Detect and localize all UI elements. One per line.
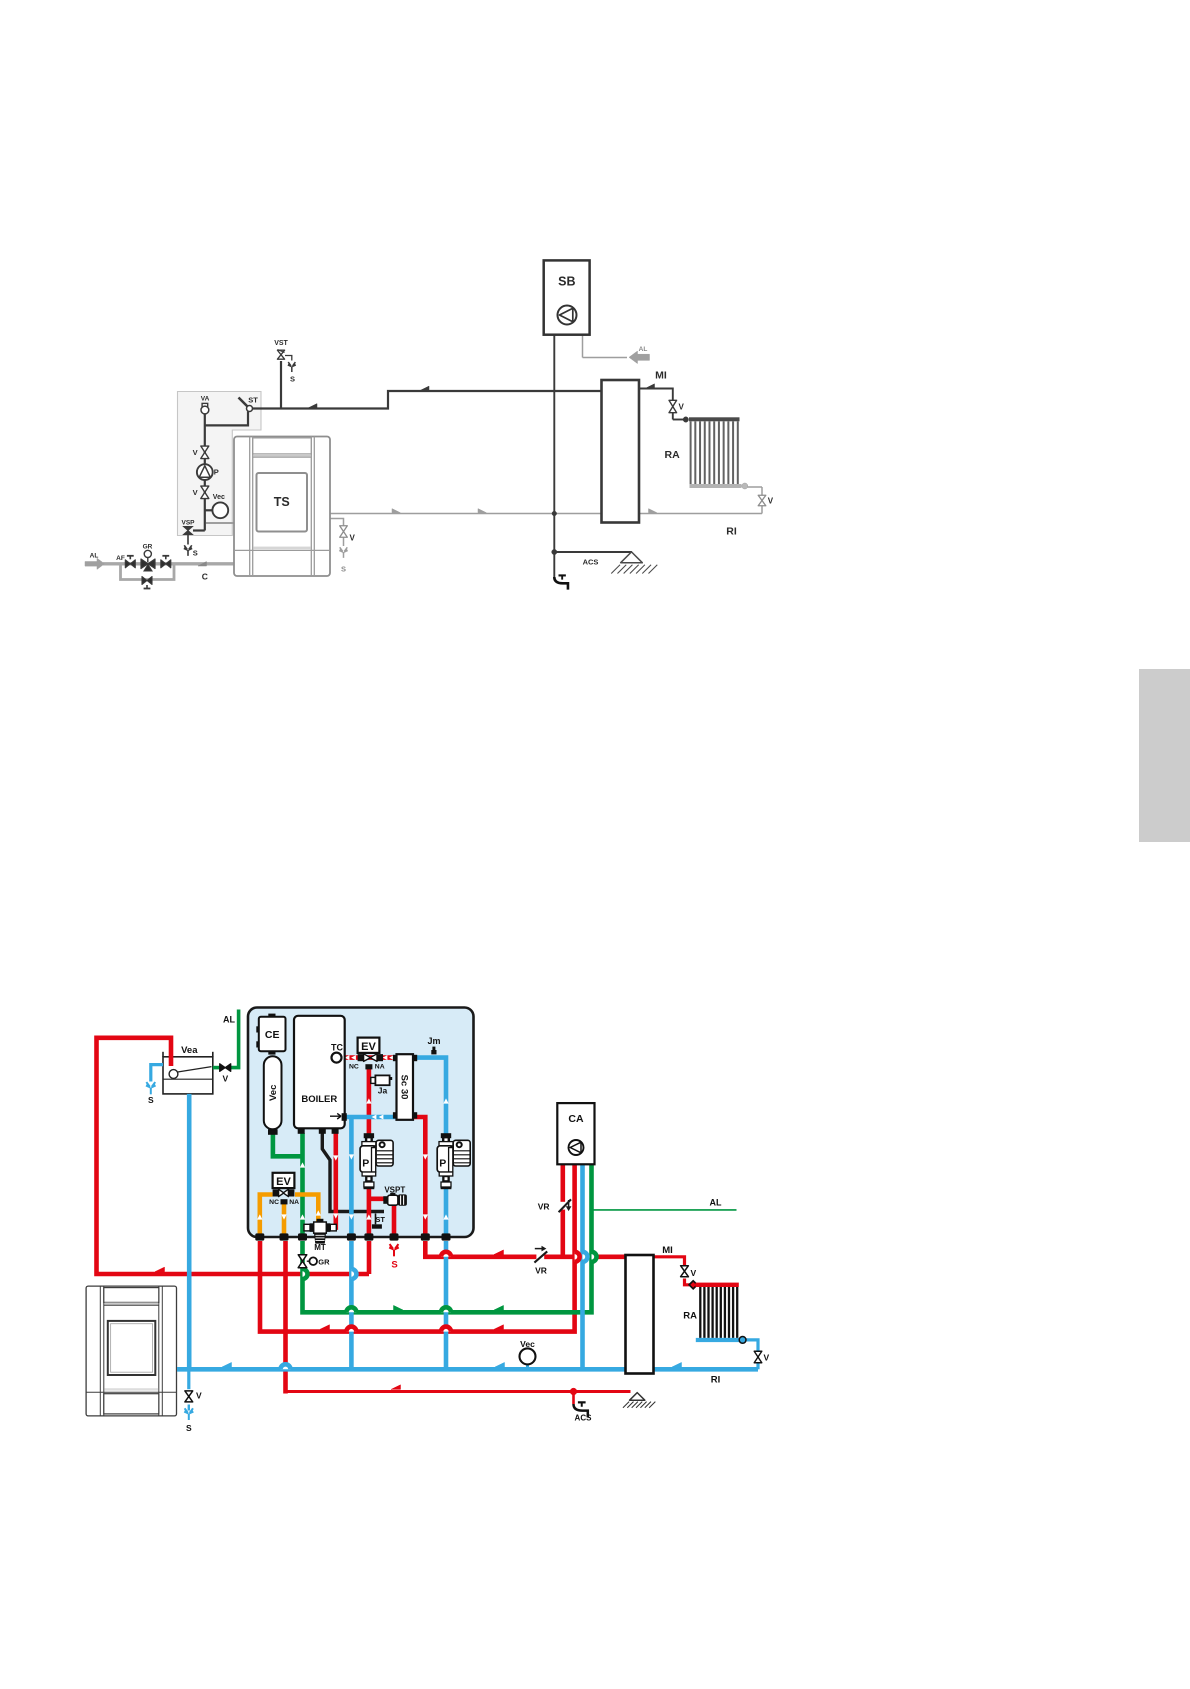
- svg-text:MI: MI: [655, 370, 667, 382]
- svg-text:VR: VR: [538, 1202, 550, 1212]
- svg-text:NC: NC: [269, 1199, 279, 1206]
- svg-text:VA: VA: [201, 396, 210, 403]
- svg-text:ACS: ACS: [583, 558, 599, 567]
- svg-text:S: S: [290, 375, 295, 384]
- svg-text:S: S: [341, 565, 346, 574]
- svg-text:TS: TS: [274, 495, 290, 509]
- svg-text:AL: AL: [710, 1198, 722, 1208]
- svg-text:ACS: ACS: [575, 1414, 593, 1423]
- svg-text:GR: GR: [318, 1258, 330, 1267]
- svg-text:MT: MT: [314, 1243, 326, 1252]
- svg-text:VR: VR: [535, 1266, 547, 1276]
- svg-text:S: S: [186, 1423, 192, 1433]
- svg-text:V: V: [679, 403, 685, 412]
- svg-text:VSP: VSP: [181, 520, 195, 527]
- svg-text:V: V: [193, 488, 198, 497]
- svg-text:ST: ST: [375, 1215, 385, 1224]
- svg-text:S: S: [148, 1095, 154, 1105]
- svg-text:BOILER: BOILER: [301, 1094, 337, 1105]
- svg-text:Vec: Vec: [520, 1339, 535, 1349]
- svg-text:RA: RA: [665, 449, 681, 461]
- svg-text:S: S: [193, 549, 198, 558]
- svg-text:RI: RI: [711, 1375, 721, 1386]
- svg-text:V: V: [691, 1268, 697, 1278]
- svg-text:V: V: [196, 1391, 202, 1401]
- svg-text:ST: ST: [248, 396, 258, 405]
- svg-text:Vec: Vec: [213, 494, 225, 501]
- svg-text:SB: SB: [558, 275, 575, 289]
- svg-text:EV: EV: [276, 1176, 291, 1188]
- svg-text:P: P: [214, 468, 219, 477]
- svg-text:CA: CA: [568, 1113, 584, 1125]
- svg-text:MI: MI: [662, 1245, 673, 1256]
- svg-text:Vea: Vea: [181, 1045, 198, 1056]
- svg-text:C: C: [202, 572, 208, 582]
- svg-text:Sc 30: Sc 30: [399, 1075, 410, 1100]
- svg-text:AL: AL: [223, 1015, 235, 1025]
- svg-text:AL: AL: [639, 346, 648, 353]
- svg-text:V: V: [222, 1073, 228, 1083]
- svg-text:P: P: [362, 1158, 369, 1170]
- svg-text:VST: VST: [274, 340, 288, 347]
- svg-text:S: S: [391, 1260, 397, 1271]
- svg-text:NA: NA: [375, 1063, 385, 1070]
- svg-text:Jm: Jm: [427, 1036, 440, 1046]
- svg-text:V: V: [193, 448, 198, 457]
- svg-text:TC: TC: [331, 1043, 343, 1053]
- svg-text:RI: RI: [726, 526, 737, 538]
- svg-text:EV: EV: [361, 1041, 376, 1053]
- svg-text:NC: NC: [349, 1063, 359, 1070]
- svg-text:RA: RA: [683, 1311, 697, 1322]
- svg-text:V: V: [350, 534, 356, 543]
- svg-text:Ja: Ja: [378, 1086, 388, 1096]
- svg-text:GR: GR: [143, 544, 153, 551]
- svg-text:CE: CE: [265, 1029, 280, 1041]
- svg-text:NA: NA: [289, 1199, 299, 1206]
- svg-text:Vec: Vec: [268, 1085, 279, 1101]
- svg-text:V: V: [764, 1352, 770, 1362]
- svg-text:V: V: [768, 497, 774, 506]
- svg-text:P: P: [439, 1158, 446, 1170]
- svg-text:AF: AF: [116, 555, 125, 562]
- svg-text:AL: AL: [90, 552, 99, 559]
